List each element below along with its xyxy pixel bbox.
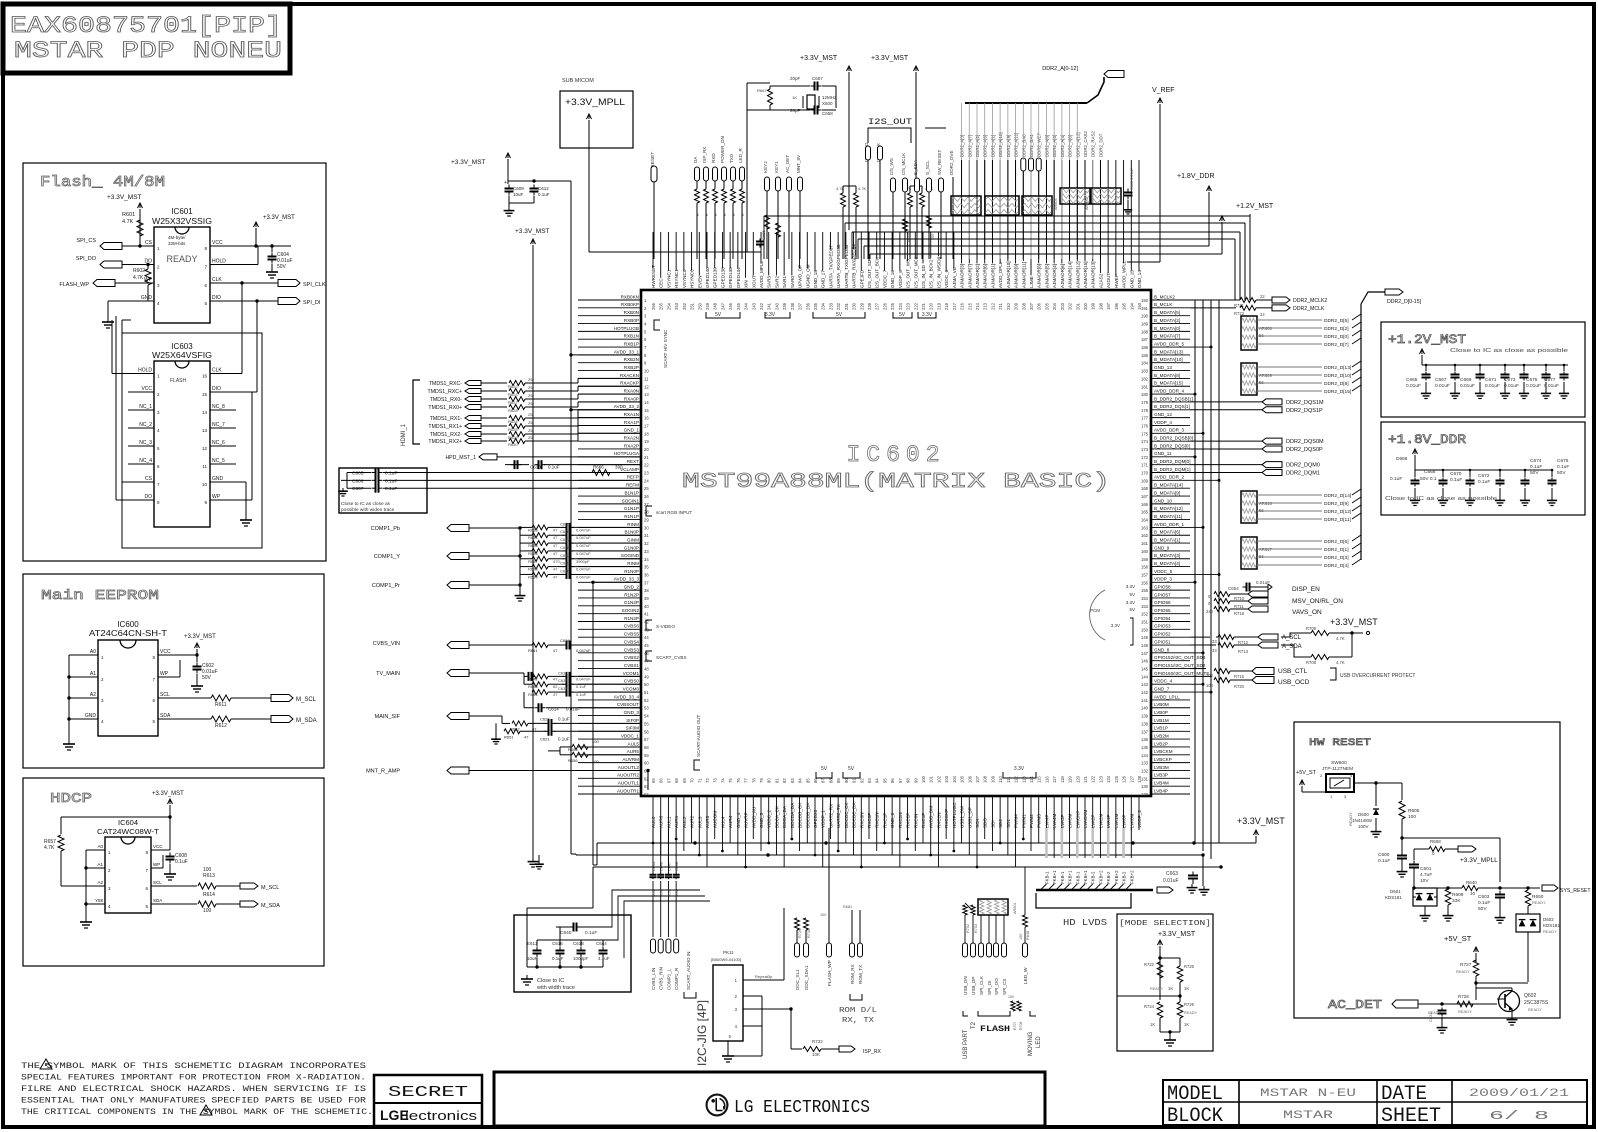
svg-text:R721: R721 bbox=[1234, 303, 1245, 308]
bus horizontal y843 bbox=[597, 842, 1256, 844]
svg-text:GND_12: GND_12 bbox=[1154, 412, 1172, 417]
IC602 pin 126 LVA0P bbox=[1123, 796, 1125, 830]
svg-text:24: 24 bbox=[644, 478, 649, 483]
wire DDR2_D[0] bbox=[1257, 335, 1322, 337]
IC602 pin 140 LVB0M bbox=[1151, 707, 1190, 709]
svg-text:DIO: DIO bbox=[212, 386, 221, 392]
resistor R712 33 bbox=[1218, 635, 1234, 640]
wire MPLL down to pin 242 bbox=[588, 120, 590, 252]
svg-text:B_MDATA[3]: B_MDATA[3] bbox=[1154, 553, 1180, 558]
svg-text:AVDD_LPLL: AVDD_LPLL bbox=[1154, 694, 1180, 699]
IC602 pin 227 I2S_OUT_BCK bbox=[876, 232, 878, 259]
svg-text:31: 31 bbox=[644, 533, 649, 538]
resistor R627 25 bbox=[481, 398, 507, 400]
svg-text:1K: 1K bbox=[1150, 1022, 1155, 1027]
IC602 pin 184 B_MDATA[10] bbox=[1151, 362, 1190, 364]
svg-text:Close to IC as close as: Close to IC as close as bbox=[341, 501, 391, 507]
wire LVDS bbox=[1084, 828, 1086, 858]
IC602 pin 48 CVBS1 bbox=[578, 668, 641, 670]
IC602 pin 33 G1N0P bbox=[578, 550, 641, 552]
svg-text:CEC: CEC bbox=[659, 278, 664, 288]
svg-text:0.1uF: 0.1uF bbox=[385, 471, 397, 477]
wire SCL eeprom bbox=[158, 697, 211, 699]
svg-text:B_DDR2_DQSB[1]: B_DDR2_DQSB[1] bbox=[1154, 396, 1193, 401]
svg-text:238: 238 bbox=[790, 302, 795, 310]
IC602 pin 51 VCOM0 bbox=[578, 691, 641, 693]
svg-text:RXB0KP: RXB0KP bbox=[621, 302, 639, 307]
wire IC603 DIO up to SPI_DI bbox=[236, 391, 257, 393]
svg-text:47: 47 bbox=[553, 535, 558, 540]
svg-text:C670: C670 bbox=[1450, 471, 1462, 477]
svg-text:RXB0N: RXB0N bbox=[624, 310, 639, 315]
svg-text:AUOUTL1: AUOUTL1 bbox=[618, 781, 640, 786]
IC602 pin 121 LVACKM bbox=[1084, 796, 1086, 830]
svg-text:5V: 5V bbox=[848, 766, 855, 772]
svg-text:169: 169 bbox=[1141, 478, 1149, 483]
right vertical bus lines bbox=[1194, 300, 1196, 843]
svg-text:181: 181 bbox=[1141, 384, 1149, 389]
svg-text:GND_10: GND_10 bbox=[1154, 498, 1172, 503]
capacitor C655 0.01uF bbox=[759, 239, 761, 242]
svg-text:175: 175 bbox=[1141, 431, 1149, 436]
svg-text:5V: 5V bbox=[1129, 592, 1135, 597]
wire cap box bus bbox=[527, 966, 603, 968]
svg-text:R708: R708 bbox=[1306, 660, 1317, 665]
svg-text:AUR2: AUR2 bbox=[690, 815, 695, 828]
svg-text:5V: 5V bbox=[836, 312, 843, 318]
IC602 pin 153 GPIO56 bbox=[1151, 605, 1190, 607]
svg-text:FKB-1: FKB-1 bbox=[1075, 871, 1080, 884]
svg-text:MNT_5V: MNT_5V bbox=[796, 154, 801, 173]
svg-text:UARTZ_RX: UARTZ_RX bbox=[828, 804, 833, 828]
svg-text:SDA: SDA bbox=[153, 898, 162, 903]
resistor R726 1K bbox=[1177, 1002, 1183, 1018]
IC602 pin 87 VDDP_1 bbox=[822, 796, 824, 867]
svg-text:SCART_AUDIO IN: SCART_AUDIO IN bbox=[686, 952, 691, 990]
ground C604 bbox=[271, 268, 273, 272]
svg-text:154: 154 bbox=[1141, 596, 1149, 601]
IC602 pin 245 GPED134 bbox=[737, 232, 739, 268]
tag FLASH_WP bottom bbox=[827, 943, 832, 957]
right bus junction dots bbox=[1210, 346, 1213, 349]
svg-text:97: 97 bbox=[898, 778, 903, 783]
wire d601 top rail bbox=[1414, 887, 1448, 889]
svg-text:DDCDB_CK: DDCDB_CK bbox=[798, 802, 803, 828]
svg-text:176: 176 bbox=[1141, 423, 1149, 428]
svg-text:D666: D666 bbox=[1396, 456, 1408, 462]
svg-text:75: 75 bbox=[728, 778, 733, 783]
svg-text:191: 191 bbox=[1141, 306, 1149, 311]
wire LVDS bbox=[1115, 828, 1117, 858]
resistor R710 0 DISP_EN bbox=[1214, 592, 1230, 597]
svg-text:READY: READY bbox=[1528, 1007, 1542, 1012]
svg-text:M_SDA: M_SDA bbox=[296, 718, 317, 724]
tag M_SCL bbox=[271, 695, 293, 702]
svg-text:SD1: SD1 bbox=[1006, 819, 1011, 828]
warning triangle 1 bbox=[40, 1059, 52, 1069]
svg-text:SPI_DI: SPI_DI bbox=[303, 300, 321, 306]
IC602 pin 163 AVDD_DDR_1 bbox=[1151, 526, 1190, 528]
IC600 AT24C64CN-SH-T bbox=[98, 640, 158, 736]
svg-text:119: 119 bbox=[1068, 776, 1073, 783]
svg-text:AUVRP: AUVRP bbox=[744, 812, 749, 828]
+1.8V cap bank bus bbox=[1415, 469, 1552, 471]
svg-text:159: 159 bbox=[1141, 557, 1149, 562]
svg-text:R708: R708 bbox=[1019, 1022, 1023, 1030]
svg-text:DDR2_D[15]: DDR2_D[15] bbox=[1324, 389, 1351, 395]
IC602 pin 205 AJMADR[5] bbox=[1045, 160, 1047, 263]
svg-text:R722: R722 bbox=[1144, 962, 1155, 967]
IC602 pin 225 GND_16 bbox=[891, 232, 893, 271]
svg-text:VAVS_ON: VAVS_ON bbox=[1292, 609, 1322, 616]
tag SPI_CS bbox=[100, 243, 122, 250]
svg-text:R688: R688 bbox=[907, 233, 911, 242]
capacitor C612 0.1uF bbox=[533, 185, 535, 189]
svg-text:ISP_RX: ISP_RX bbox=[863, 1049, 881, 1055]
wire DDR2 bus DDR2_A[7] bbox=[968, 160, 970, 259]
wire rc row to IC bbox=[572, 573, 641, 575]
wire DDR2 bus DDR2_RAS2 bbox=[1092, 160, 1094, 259]
wire rc row to IC bbox=[572, 534, 641, 536]
svg-text:GPIO57: GPIO57 bbox=[1154, 592, 1171, 597]
svg-text:C638: C638 bbox=[558, 686, 568, 691]
IC602 pin 239 SAR1 bbox=[783, 232, 785, 275]
svg-text:LVA4P: LVA4P bbox=[1044, 814, 1049, 828]
svg-text:R1N0P: R1N0P bbox=[624, 569, 639, 574]
svg-text:133: 133 bbox=[1141, 761, 1149, 766]
crystal X600 12MHz bbox=[807, 95, 815, 109]
wire PK11 pin3 to ISP bbox=[762, 1008, 791, 1010]
svg-text:DDR2_BA0: DDR2_BA0 bbox=[1021, 134, 1026, 157]
resistor R648 100 bbox=[1023, 915, 1028, 927]
svg-text:AT24C64CN-SH-T: AT24C64CN-SH-T bbox=[89, 629, 167, 638]
wire V_REF down bbox=[1159, 104, 1161, 262]
Flash 4M/8M block box bbox=[23, 163, 326, 561]
svg-text:AVDD_AU: AVDD_AU bbox=[751, 807, 756, 828]
svg-text:0.1uF: 0.1uF bbox=[385, 486, 397, 492]
svg-text:198: 198 bbox=[1098, 302, 1103, 310]
svg-text:0.047uF: 0.047uF bbox=[576, 574, 591, 579]
svg-text:RXB1N: RXB1N bbox=[624, 334, 639, 339]
wire DDR2 bus DDR2_A[10] bbox=[999, 160, 1001, 259]
svg-text:141: 141 bbox=[1141, 698, 1149, 703]
tag USB_DN bbox=[963, 943, 968, 957]
DDR2 bus top horizontal bbox=[965, 102, 1087, 104]
IC602 pin 78 AVDD_AU bbox=[752, 796, 754, 839]
svg-text:47: 47 bbox=[553, 527, 558, 532]
svg-text:W25X32VSSIG: W25X32VSSIG bbox=[152, 217, 212, 226]
IC602 pin 173 B_DDR2_DQS[0] bbox=[1151, 448, 1190, 450]
svg-text:LVA3M: LVA3M bbox=[1068, 813, 1073, 828]
svg-text:229: 229 bbox=[859, 302, 864, 310]
svg-text:SPI_CS: SPI_CS bbox=[1002, 979, 1007, 995]
svg-text:11: 11 bbox=[644, 376, 649, 381]
svg-text:DDR2_D[2]: DDR2_D[2] bbox=[1324, 326, 1349, 332]
svg-text:B_MDATA[5]: B_MDATA[5] bbox=[1154, 310, 1180, 315]
IC602 pin 145 GPIO151/I2C_OUT_SD2 bbox=[1151, 668, 1190, 670]
IC602 pin 37 AVDD_33_3 bbox=[578, 581, 641, 583]
svg-text:C635: C635 bbox=[558, 670, 568, 675]
svg-text:R612: R612 bbox=[215, 723, 227, 729]
svg-text:SCART-AUDIO OUT: SCART-AUDIO OUT bbox=[696, 715, 701, 757]
svg-text:READY: READY bbox=[1543, 929, 1557, 934]
svg-text:0.1uF: 0.1uF bbox=[585, 930, 597, 936]
svg-text:GND_18: GND_18 bbox=[813, 270, 818, 288]
svg-text:UARTZ_TX: UARTZ_TX bbox=[836, 804, 841, 828]
IC602 pin 83 DDCDA_DA bbox=[791, 796, 793, 839]
IC602 pin 137 LVB1P bbox=[1151, 730, 1190, 732]
svg-text:SPI_CLK: SPI_CLK bbox=[303, 282, 326, 288]
svg-text:C654: C654 bbox=[1228, 586, 1239, 591]
svg-text:READY: READY bbox=[166, 254, 197, 264]
svg-text:120: 120 bbox=[1075, 775, 1080, 783]
wire bus right verticals bbox=[1249, 214, 1251, 300]
svg-text:2009/01/21: 2009/01/21 bbox=[1469, 1088, 1570, 1100]
tag USB_OCD bbox=[1252, 677, 1274, 684]
IC602 pin 218 VDDC_6 bbox=[945, 232, 947, 271]
svg-text:I2S_IN_BCK2: I2S_IN_BCK2 bbox=[929, 259, 934, 288]
svg-text:LVB2P: LVB2P bbox=[1154, 741, 1168, 746]
wire DDR2_D[9] bbox=[1257, 502, 1322, 504]
svg-text:22: 22 bbox=[1260, 312, 1265, 317]
svg-text:100: 100 bbox=[1206, 683, 1214, 688]
svg-text:+: + bbox=[504, 180, 507, 186]
svg-text:RXB2P: RXB2P bbox=[624, 365, 639, 370]
svg-text:VDDP_2: VDDP_2 bbox=[1137, 810, 1142, 828]
svg-text:0.1uF: 0.1uF bbox=[548, 465, 560, 470]
svg-text:G1N2P: G1N2P bbox=[624, 600, 639, 605]
svg-text:25: 25 bbox=[528, 428, 533, 433]
svg-text:GND: GND bbox=[141, 295, 153, 301]
svg-text:250: 250 bbox=[697, 302, 702, 310]
IC602 pin 73 AUCOM bbox=[714, 796, 716, 839]
tag ISP_RX bottom bbox=[839, 1046, 855, 1052]
svg-text:0.1uF: 0.1uF bbox=[1557, 464, 1569, 470]
IC602 pin 213 AJMADR[6] bbox=[984, 160, 986, 263]
svg-text:AUR1: AUR1 bbox=[674, 815, 679, 828]
svg-text:IC601: IC601 bbox=[171, 207, 193, 216]
svg-text:DDR2_A[5]: DDR2_A[5] bbox=[1052, 135, 1057, 157]
wire LVDS bbox=[1107, 828, 1110, 858]
capacitor C616 0.1uF bbox=[559, 947, 561, 951]
svg-text:DDR2_DQS1M: DDR2_DQS1M bbox=[1286, 400, 1324, 406]
svg-text:204: 204 bbox=[1052, 302, 1057, 310]
svg-text:GPEJFD: GPEJFD bbox=[859, 269, 864, 288]
svg-text:100: 100 bbox=[820, 913, 826, 917]
IC602 pin 7 RXB1P bbox=[578, 346, 641, 348]
ground C672 bbox=[1499, 497, 1501, 500]
svg-text:COMP1_Pr: COMP1_Pr bbox=[372, 583, 400, 589]
ground cap box bbox=[342, 488, 344, 491]
svg-text:RXA2N: RXA2N bbox=[624, 436, 639, 441]
svg-text:R611: R611 bbox=[215, 702, 227, 708]
IC602 pin 5 HOTPLUGB bbox=[578, 330, 641, 332]
wire DDR2 bus DDR2_CAS2 bbox=[1084, 160, 1086, 259]
svg-text:0.047uF: 0.047uF bbox=[576, 648, 591, 653]
svg-text:R732: R732 bbox=[812, 1039, 823, 1044]
wire DDR2 bus DDR2_A[2] bbox=[976, 160, 978, 259]
svg-text:R648: R648 bbox=[1026, 931, 1030, 940]
svg-text:LVB3P: LVB3P bbox=[1154, 773, 1168, 778]
svg-text:EAX60875701[PIP]: EAX60875701[PIP] bbox=[10, 13, 282, 39]
wire bus horizontal bbox=[858, 238, 1235, 240]
svg-text:C675: C675 bbox=[1526, 377, 1538, 383]
resistor R727 bbox=[1473, 960, 1479, 976]
svg-text:REFM: REFM bbox=[626, 483, 639, 488]
wire rc row to IC bbox=[572, 542, 641, 544]
svg-text:GPED139: GPED139 bbox=[713, 267, 718, 288]
wire to cap pair bbox=[508, 180, 571, 182]
IC602 pin 54 GND_3 bbox=[578, 715, 641, 717]
svg-text:I2C-JIG [4P]: I2C-JIG [4P] bbox=[695, 1000, 709, 1066]
IC602 pin 1 RXB0KN bbox=[578, 299, 641, 301]
IC602 pin 55 SIF0P bbox=[578, 722, 641, 724]
tag DDR2_BA0 bbox=[1021, 158, 1026, 171]
capacitor C657 bbox=[811, 85, 815, 87]
svg-text:183: 183 bbox=[1141, 369, 1149, 374]
svg-text:3900pF: 3900pF bbox=[576, 559, 590, 564]
svg-text:A0: A0 bbox=[97, 844, 103, 849]
IC602 pin 198 A2AS2 bbox=[1099, 160, 1101, 273]
svg-text:62: 62 bbox=[644, 776, 649, 781]
power arrow 1.8V bbox=[1413, 449, 1418, 454]
IC602 pin 144 GPIO150/I2C_OUT_MUTE bbox=[1151, 675, 1190, 677]
IC602 pin 39 R1N2P bbox=[578, 597, 641, 599]
IC602 pin 100 RXC1P bbox=[922, 796, 924, 843]
svg-text:B_DDR2_DQSB[0]: B_DDR2_DQSB[0] bbox=[1154, 436, 1193, 441]
svg-text:MNT_R_AMP: MNT_R_AMP bbox=[366, 768, 400, 774]
IC602 pin 248 GPED139 bbox=[714, 232, 716, 268]
IC602 pin 237 UPWD_OP bbox=[799, 232, 801, 268]
IC602 pin 206 AJMADR[8] bbox=[1038, 160, 1040, 263]
svg-text:DDR2_A[3]: DDR2_A[3] bbox=[960, 135, 965, 157]
IC602 pin 105 USB1_DM bbox=[961, 796, 963, 843]
wire tmds to IC bbox=[525, 417, 578, 419]
resistor R724 1K bbox=[1157, 1002, 1163, 1018]
svg-text:127: 127 bbox=[1129, 775, 1134, 783]
svg-text:72: 72 bbox=[705, 778, 710, 783]
ground C669 bbox=[1479, 390, 1481, 393]
svg-text:+5V_ST: +5V_ST bbox=[1296, 770, 1317, 776]
svg-text:scart RGB INPUT: scart RGB INPUT bbox=[656, 510, 692, 515]
svg-text:236: 236 bbox=[805, 302, 810, 310]
svg-text:READY: READY bbox=[1184, 1011, 1198, 1015]
svg-text:47: 47 bbox=[553, 574, 558, 579]
warning triangle 2 bbox=[200, 1105, 212, 1115]
svg-text:+3.3V_MST: +3.3V_MST bbox=[1330, 617, 1378, 627]
resistor R702 bbox=[965, 903, 972, 910]
tag DDR2_WE7 bbox=[1036, 158, 1041, 171]
svg-text:DDR2_D[8]: DDR2_D[8] bbox=[1324, 381, 1349, 387]
svg-text:R725: R725 bbox=[1184, 964, 1195, 969]
svg-text:129: 129 bbox=[1141, 792, 1149, 797]
IC602 pin 17 RXA1P bbox=[578, 424, 641, 426]
svg-text:10: 10 bbox=[202, 482, 208, 487]
ground C675 bbox=[1545, 390, 1547, 393]
svg-text:102: 102 bbox=[936, 775, 941, 783]
svg-text:4.7K: 4.7K bbox=[44, 845, 55, 851]
svg-text:33: 33 bbox=[1212, 639, 1217, 644]
svg-text:AVDD_DDR_2: AVDD_DDR_2 bbox=[1154, 475, 1184, 480]
resistor R709 4.7K bbox=[1311, 631, 1329, 636]
wire x597 elbow bbox=[593, 864, 597, 866]
svg-text:207: 207 bbox=[1029, 302, 1034, 310]
svg-text:READY: READY bbox=[1150, 987, 1164, 991]
svg-text:SCART H/V SYNC: SCART H/V SYNC bbox=[663, 329, 668, 368]
svg-text:PWM3: PWM3 bbox=[1037, 814, 1042, 828]
svg-text:RXA1N: RXA1N bbox=[624, 412, 639, 417]
resistor R713 33 bbox=[1218, 643, 1234, 648]
svg-text:130: 130 bbox=[1141, 784, 1149, 789]
svg-text:C610: C610 bbox=[530, 465, 541, 470]
svg-text:166: 166 bbox=[1141, 502, 1149, 507]
svg-text:RXA0P: RXA0P bbox=[624, 396, 639, 401]
svg-text:SCART_CVBS: SCART_CVBS bbox=[656, 655, 687, 660]
svg-text:Main EEPROM: Main EEPROM bbox=[41, 588, 159, 604]
svg-text:CVBS_RIN: CVBS_RIN bbox=[659, 967, 664, 990]
svg-text:45: 45 bbox=[644, 643, 649, 648]
power bracket 3.3V group E bbox=[918, 312, 936, 318]
ground C668 bbox=[1442, 497, 1444, 500]
svg-text:LVA3P: LVA3P bbox=[1060, 814, 1065, 828]
svg-text:PWM2: PWM2 bbox=[1029, 814, 1034, 828]
svg-text:SAR2: SAR2 bbox=[774, 276, 779, 288]
svg-text:TXD: TXD bbox=[729, 153, 734, 163]
svg-text:171: 171 bbox=[1141, 463, 1149, 468]
svg-text:41: 41 bbox=[644, 612, 649, 617]
tag SPI_DI bbox=[278, 298, 300, 305]
svg-text:25: 25 bbox=[528, 435, 533, 440]
svg-text:HWEF: HWEF bbox=[1114, 274, 1119, 288]
power bracket 3.3V group B bbox=[765, 312, 790, 318]
svg-text:PWM1: PWM1 bbox=[1021, 814, 1026, 828]
svg-text:29: 29 bbox=[644, 518, 649, 523]
svg-text:B_MDATA[10]: B_MDATA[10] bbox=[1154, 357, 1183, 362]
svg-text:RXC1P: RXC1P bbox=[882, 813, 887, 828]
svg-text:AVDD_MPLL: AVDD_MPLL bbox=[759, 261, 764, 288]
svg-text:I2S_IN_SD: I2S_IN_SD bbox=[921, 264, 926, 288]
svg-text:+3.3V_MST: +3.3V_MST bbox=[871, 55, 909, 62]
wire DDR2 bus DDR2_A[0] bbox=[1069, 160, 1071, 259]
svg-text:216: 216 bbox=[960, 302, 965, 310]
LVDS thick line bbox=[1036, 889, 1153, 891]
svg-text:WP: WP bbox=[153, 862, 160, 867]
tag A_SCL bbox=[1258, 634, 1278, 640]
svg-text:+1.2V_MST: +1.2V_MST bbox=[1236, 203, 1274, 210]
IC602 pin 180 AVDD_DDR_4 bbox=[1151, 393, 1190, 395]
svg-text:D602: D602 bbox=[1543, 917, 1554, 922]
IC602 pin 43 CVBS6 bbox=[578, 628, 641, 630]
svg-text:18: 18 bbox=[644, 431, 649, 436]
svg-text:AJMADR[8]: AJMADR[8] bbox=[1037, 264, 1042, 288]
svg-text:+3.3V_MST: +3.3V_MST bbox=[515, 228, 550, 235]
IC602 pin 223 I2S_OUT_WS bbox=[907, 232, 909, 261]
svg-text:223: 223 bbox=[906, 302, 911, 310]
IC602 pin 148 GPIO51 bbox=[1151, 644, 1190, 646]
svg-text:1K: 1K bbox=[792, 95, 797, 100]
svg-text:VDDC_1: VDDC_1 bbox=[621, 734, 640, 739]
svg-text:FKB+1: FKB+1 bbox=[1052, 870, 1057, 884]
svg-text:DDR2_MCLK: DDR2_MCLK bbox=[1293, 306, 1325, 312]
svg-text:234: 234 bbox=[821, 302, 826, 310]
resistor R655 100 bbox=[572, 744, 588, 749]
svg-text:36: 36 bbox=[644, 572, 649, 577]
svg-text:70: 70 bbox=[690, 778, 695, 783]
title box bbox=[3, 4, 290, 73]
svg-text:GND_4: GND_4 bbox=[736, 812, 741, 828]
IC604 CAT24WC08W-T bbox=[105, 837, 151, 913]
svg-text:SPI_DO: SPI_DO bbox=[76, 256, 97, 262]
